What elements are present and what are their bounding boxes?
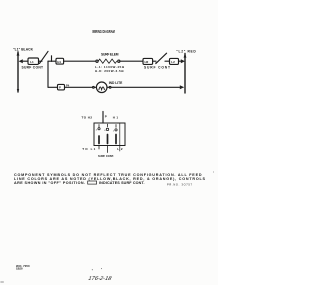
svg-text:PR.NO. 3O757: PR.NO. 3O757 <box>167 183 193 187</box>
svg-text:INDICATES SURF CONT.: INDICATES SURF CONT. <box>99 181 145 185</box>
svg-text:176-2-18: 176-2-18 <box>88 276 113 282</box>
svg-text:SURF CONT: SURF CONT <box>22 66 44 70</box>
svg-text:IND LITE: IND LITE <box>109 81 123 85</box>
svg-text:ARE SHOWN IN "OFF" POSITION.: ARE SHOWN IN "OFF" POSITION. <box>14 181 85 185</box>
svg-text:P: P <box>105 115 107 119</box>
svg-text:SURF ELEM: SURF ELEM <box>101 53 119 57</box>
svg-text:"L2" RED: "L2" RED <box>176 49 196 53</box>
svg-text:L2: L2 <box>171 60 175 64</box>
svg-text:H1: H1 <box>57 60 61 64</box>
svg-text:S.B.50: S.B.50 <box>16 268 23 271</box>
svg-text:L2: L2 <box>117 147 123 151</box>
svg-text:H1: H1 <box>113 115 119 119</box>
svg-text:P: P <box>59 85 61 89</box>
svg-text:TO L1: TO L1 <box>82 147 95 151</box>
svg-text:WIRING DIAGRAM: WIRING DIAGRAM <box>92 29 115 34</box>
svg-text:H-8: 200W-3.5Ω: H-8: 200W-3.5Ω <box>95 69 124 73</box>
svg-text:TO H2: TO H2 <box>82 115 93 119</box>
svg-text:P4: P4 <box>66 84 70 88</box>
svg-text:H2: H2 <box>145 60 149 64</box>
svg-text:L1: L1 <box>30 60 34 64</box>
svg-text:"L1" BLACK: "L1" BLACK <box>13 47 34 51</box>
svg-text:SURF CONT.: SURF CONT. <box>98 154 114 158</box>
svg-text:SURF CONT: SURF CONT <box>144 66 170 70</box>
